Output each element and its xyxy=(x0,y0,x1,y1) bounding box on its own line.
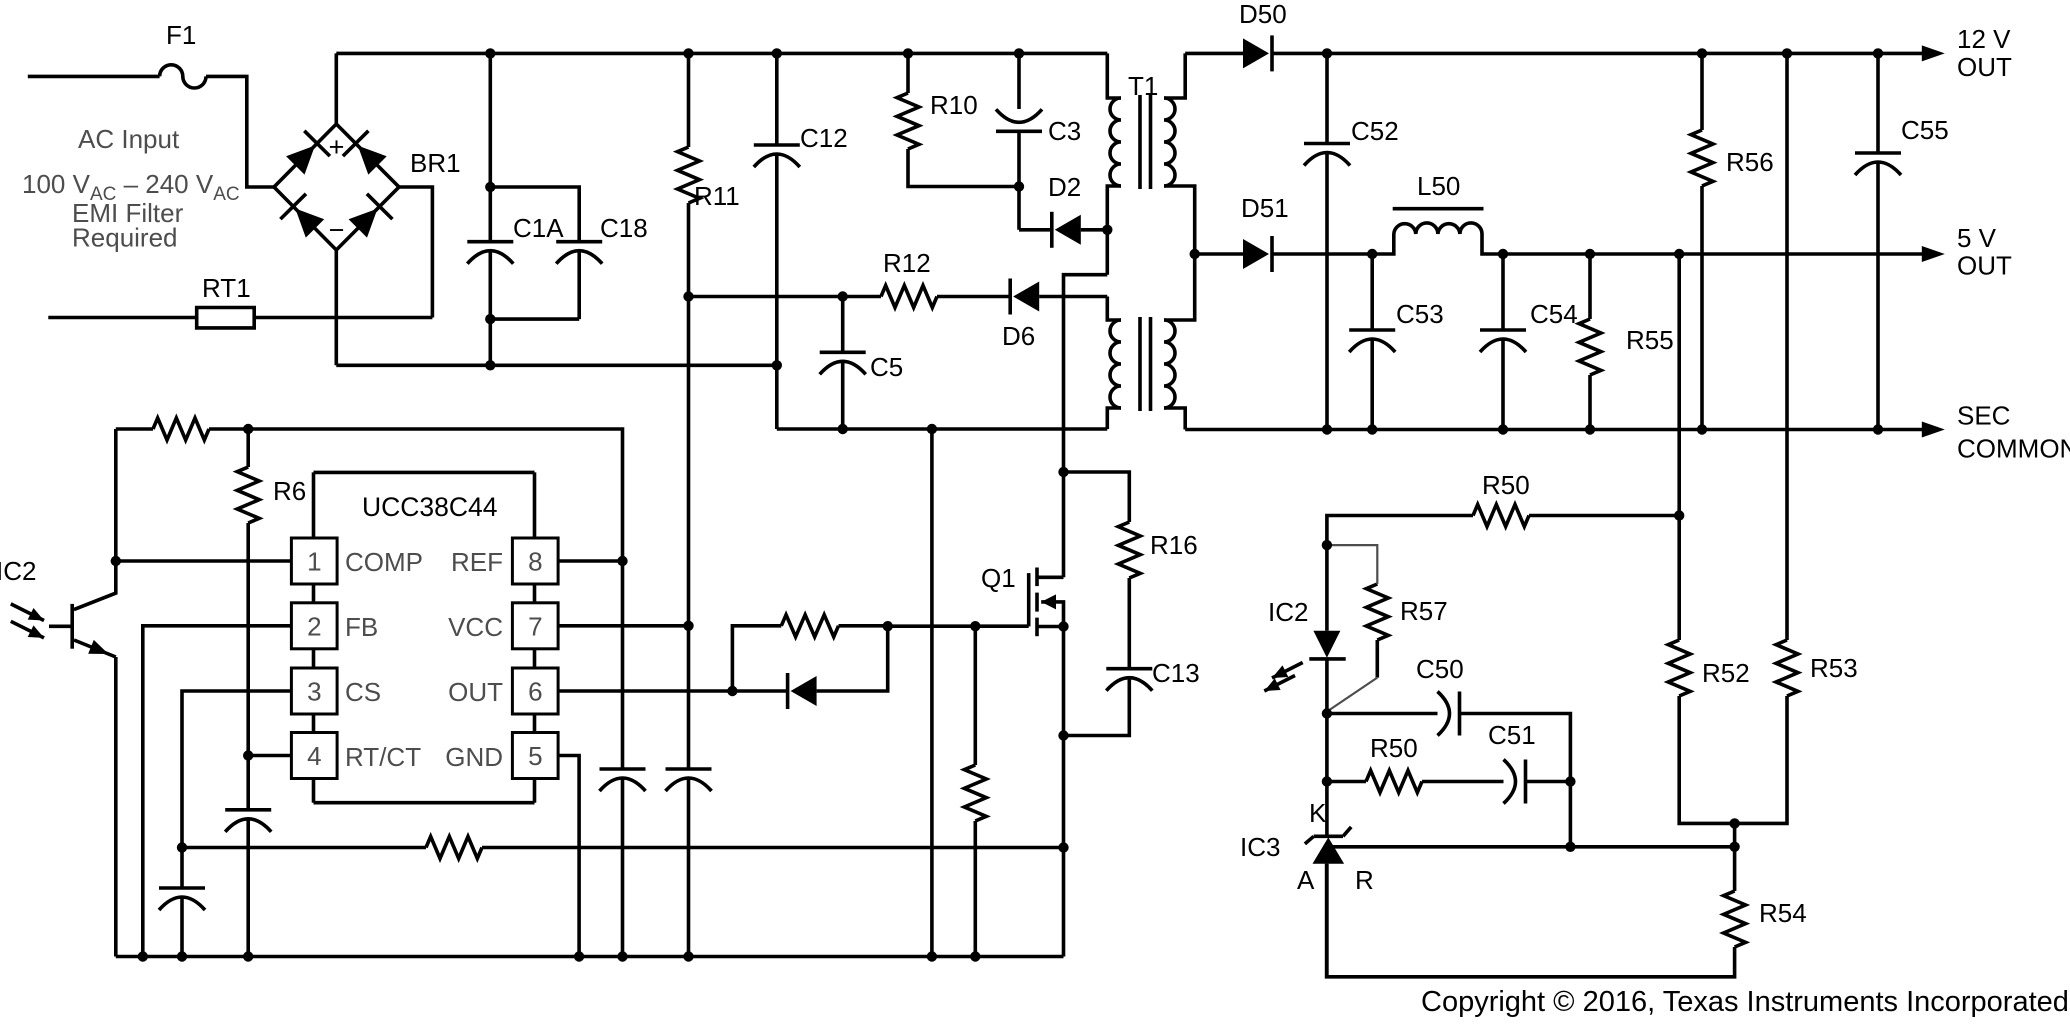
svg-text:SEC: SEC xyxy=(1957,401,2010,431)
svg-text:+: + xyxy=(329,132,345,162)
svg-text:OUT: OUT xyxy=(1957,52,2012,82)
svg-text:BR1: BR1 xyxy=(410,148,461,178)
svg-text:R53: R53 xyxy=(1810,653,1858,683)
svg-text:5: 5 xyxy=(528,741,542,771)
svg-text:4: 4 xyxy=(307,741,321,771)
svg-text:−: − xyxy=(329,215,345,245)
svg-text:IC2: IC2 xyxy=(1268,597,1308,627)
svg-text:6: 6 xyxy=(528,677,542,707)
svg-text:C52: C52 xyxy=(1351,116,1399,146)
svg-text:L50: L50 xyxy=(1417,171,1460,201)
svg-text:C1A: C1A xyxy=(513,213,564,243)
svg-text:R: R xyxy=(1355,865,1374,895)
svg-text:3: 3 xyxy=(307,677,321,707)
svg-text:VCC: VCC xyxy=(448,612,503,642)
svg-text:IC2: IC2 xyxy=(0,556,36,586)
svg-text:12 V: 12 V xyxy=(1957,24,2011,54)
svg-text:2: 2 xyxy=(307,611,321,641)
svg-text:RT/CT: RT/CT xyxy=(345,742,421,772)
svg-text:R10: R10 xyxy=(930,90,978,120)
svg-text:8: 8 xyxy=(528,547,542,577)
svg-text:C5: C5 xyxy=(870,352,903,382)
svg-text:A: A xyxy=(1297,865,1315,895)
svg-text:T1: T1 xyxy=(1128,71,1158,101)
svg-text:R50: R50 xyxy=(1482,470,1530,500)
svg-text:AC Input: AC Input xyxy=(78,124,180,154)
svg-text:R56: R56 xyxy=(1726,147,1774,177)
svg-text:F1: F1 xyxy=(166,20,196,50)
svg-text:C54: C54 xyxy=(1530,299,1578,329)
svg-text:D50: D50 xyxy=(1239,0,1287,29)
svg-text:Q1: Q1 xyxy=(981,563,1016,593)
svg-text:D51: D51 xyxy=(1241,193,1289,223)
svg-text:COMP: COMP xyxy=(345,547,423,577)
svg-text:C51: C51 xyxy=(1488,720,1536,750)
svg-text:C18: C18 xyxy=(600,213,648,243)
svg-text:CS: CS xyxy=(345,677,381,707)
svg-text:R55: R55 xyxy=(1626,325,1674,355)
svg-text:C55: C55 xyxy=(1901,115,1949,145)
svg-text:FB: FB xyxy=(345,612,378,642)
svg-text:C13: C13 xyxy=(1152,658,1200,688)
svg-text:RT1: RT1 xyxy=(202,273,251,303)
svg-text:D2: D2 xyxy=(1048,172,1081,202)
svg-text:C12: C12 xyxy=(800,123,848,153)
svg-text:COMMON: COMMON xyxy=(1957,434,2070,464)
svg-text:R6: R6 xyxy=(273,476,306,506)
svg-text:1: 1 xyxy=(307,547,321,577)
svg-text:R12: R12 xyxy=(883,248,931,278)
svg-text:R50: R50 xyxy=(1370,733,1418,763)
svg-text:GND: GND xyxy=(445,742,503,772)
svg-text:7: 7 xyxy=(528,611,542,641)
svg-text:UCC38C44: UCC38C44 xyxy=(362,492,498,522)
svg-text:REF: REF xyxy=(451,547,503,577)
svg-text:R52: R52 xyxy=(1702,658,1750,688)
svg-text:R16: R16 xyxy=(1150,530,1198,560)
svg-text:OUT: OUT xyxy=(448,677,503,707)
svg-text:C50: C50 xyxy=(1416,654,1464,684)
svg-text:Copyright © 2016, Texas Instru: Copyright © 2016, Texas Instruments Inco… xyxy=(1421,986,2069,1018)
svg-text:R57: R57 xyxy=(1400,596,1448,626)
svg-text:Required: Required xyxy=(72,223,178,253)
svg-text:5 V: 5 V xyxy=(1957,223,1997,253)
svg-text:C3: C3 xyxy=(1048,116,1081,146)
svg-text:D6: D6 xyxy=(1002,321,1035,351)
svg-text:R54: R54 xyxy=(1759,898,1807,928)
svg-text:K: K xyxy=(1309,798,1327,828)
svg-text:C53: C53 xyxy=(1396,299,1444,329)
svg-text:R11: R11 xyxy=(694,181,740,211)
svg-text:IC3: IC3 xyxy=(1240,832,1280,862)
svg-text:OUT: OUT xyxy=(1957,251,2012,281)
